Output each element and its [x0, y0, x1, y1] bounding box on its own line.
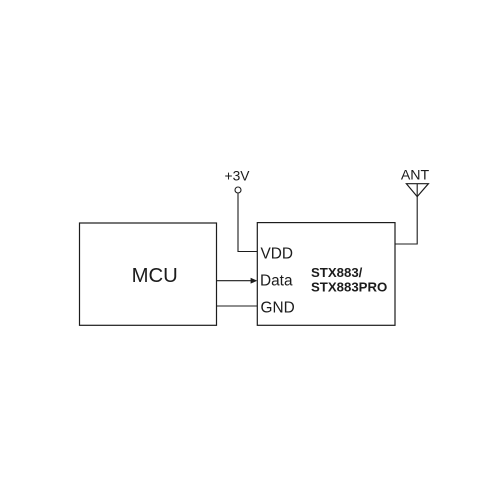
svg-text:STX883/: STX883/: [311, 265, 363, 280]
svg-text:MCU: MCU: [132, 265, 178, 287]
svg-text:GND: GND: [261, 300, 295, 317]
svg-text:+3V: +3V: [225, 168, 251, 183]
svg-text:VDD: VDD: [261, 245, 294, 262]
svg-text:Data: Data: [260, 272, 293, 289]
svg-text:ANT: ANT: [401, 167, 430, 183]
svg-text:STX883PRO: STX883PRO: [311, 280, 387, 295]
